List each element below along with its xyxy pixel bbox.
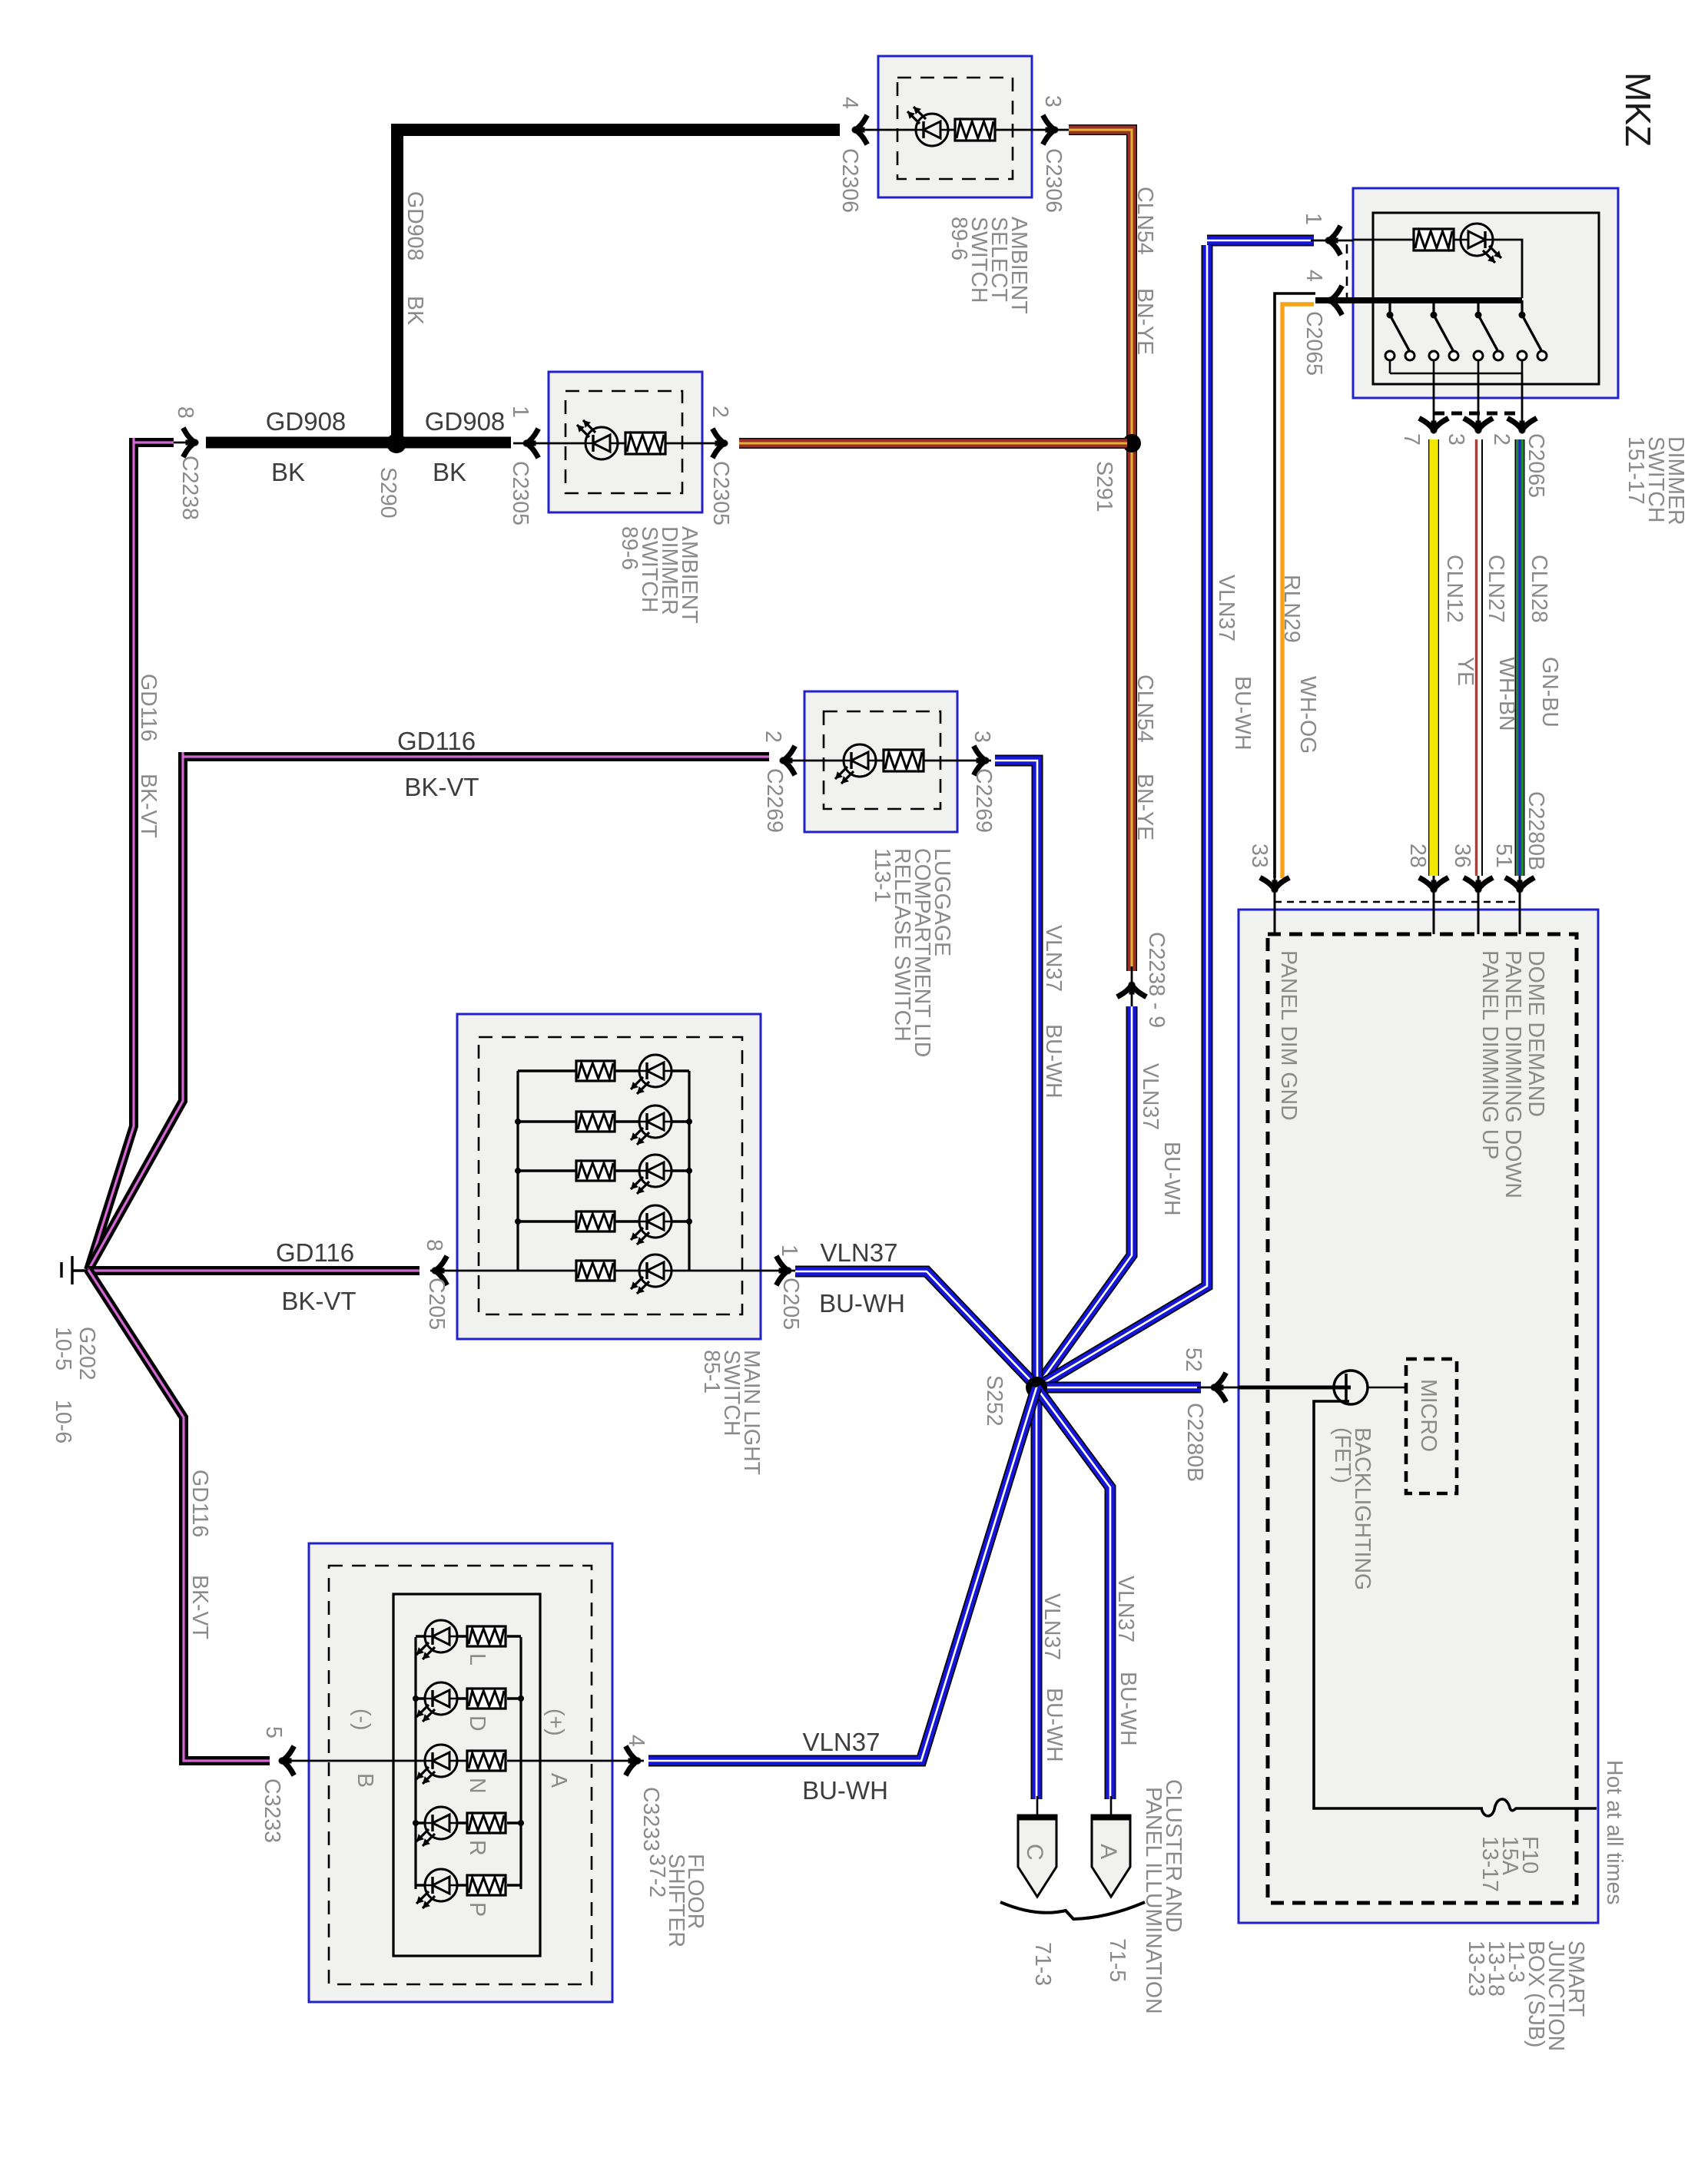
svg-text:BK: BK (403, 296, 427, 325)
svg-text:GD116: GD116 (397, 727, 476, 755)
svg-text:BK-VT: BK-VT (187, 1575, 212, 1639)
svg-text:4: 4 (624, 1735, 648, 1747)
svg-text:N: N (465, 1778, 489, 1794)
svg-text:71-3: 71-3 (1030, 1942, 1055, 1986)
svg-text:2: 2 (708, 406, 732, 418)
svg-text:Hot at all times: Hot at all times (1602, 1760, 1627, 1904)
svg-text:(+): (+) (543, 1709, 568, 1736)
svg-text:89-6: 89-6 (947, 217, 971, 260)
svg-text:RLN29: RLN29 (1279, 575, 1304, 643)
svg-text:GD908: GD908 (425, 407, 506, 436)
svg-text:A: A (546, 1773, 571, 1788)
svg-text:VLN37: VLN37 (1113, 1576, 1138, 1642)
svg-text:89-6: 89-6 (617, 526, 642, 570)
svg-text:GD116: GD116 (187, 1470, 212, 1537)
svg-text:151-17: 151-17 (1623, 436, 1648, 505)
svg-text:S290: S290 (376, 467, 400, 519)
svg-text:GD116: GD116 (276, 1238, 354, 1267)
svg-text:DOME DEMAND: DOME DEMAND (1524, 950, 1548, 1117)
svg-text:C2305: C2305 (708, 461, 733, 525)
svg-text:13-17: 13-17 (1478, 1836, 1502, 1892)
svg-text:BU-WH: BU-WH (1116, 1672, 1140, 1746)
svg-text:BK-VT: BK-VT (136, 774, 161, 838)
svg-text:BU-WH: BU-WH (1042, 1688, 1066, 1762)
svg-text:2: 2 (761, 731, 785, 743)
svg-text:13-23: 13-23 (1464, 1941, 1488, 1997)
svg-text:BU-WH: BU-WH (819, 1289, 905, 1318)
svg-text:8: 8 (173, 406, 197, 419)
svg-text:MICRO: MICRO (1416, 1379, 1441, 1452)
svg-text:S252: S252 (982, 1375, 1007, 1427)
svg-text:PANEL DIMMING DOWN: PANEL DIMMING DOWN (1501, 950, 1525, 1198)
svg-text:B: B (353, 1773, 377, 1788)
svg-text:10-6: 10-6 (51, 1400, 75, 1443)
svg-text:3: 3 (1444, 433, 1468, 446)
svg-text:CLN28: CLN28 (1527, 555, 1551, 623)
svg-text:C2269: C2269 (971, 768, 996, 833)
svg-text:CLN54: CLN54 (1133, 675, 1157, 743)
svg-text:G202: G202 (75, 1327, 99, 1380)
svg-text:GD908: GD908 (403, 191, 427, 260)
svg-text:37-2: 37-2 (645, 1854, 669, 1898)
svg-text:BK: BK (433, 458, 466, 486)
svg-text:71-5: 71-5 (1105, 1938, 1129, 1982)
svg-text:52: 52 (1181, 1347, 1206, 1372)
svg-text:CLN27: CLN27 (1484, 555, 1508, 623)
svg-text:PANEL DIMMING UP: PANEL DIMMING UP (1478, 950, 1502, 1159)
svg-text:3: 3 (970, 731, 994, 743)
svg-text:BN-YE: BN-YE (1133, 774, 1157, 840)
svg-text:VLN37: VLN37 (1138, 1063, 1162, 1130)
svg-text:BK-VT: BK-VT (281, 1287, 356, 1315)
svg-text:VLN37: VLN37 (1214, 575, 1239, 641)
svg-text:C2065: C2065 (1524, 433, 1548, 498)
svg-text:28: 28 (1405, 844, 1430, 868)
svg-text:C2238 - 9: C2238 - 9 (1144, 932, 1169, 1028)
svg-text:PANEL DIM GND: PANEL DIM GND (1276, 950, 1301, 1121)
svg-text:C205: C205 (424, 1278, 449, 1330)
svg-text:WH-BN: WH-BN (1494, 657, 1519, 731)
svg-text:BK-VT: BK-VT (404, 773, 479, 801)
svg-text:5: 5 (261, 1726, 286, 1738)
svg-text:VLN37: VLN37 (803, 1728, 881, 1756)
svg-text:C2269: C2269 (762, 768, 787, 833)
svg-text:7: 7 (1399, 433, 1424, 446)
svg-text:A: A (1096, 1844, 1121, 1859)
svg-text:YE: YE (1453, 657, 1478, 686)
svg-text:C2280B: C2280B (1182, 1403, 1207, 1482)
svg-text:C3233: C3233 (638, 1787, 663, 1851)
svg-text:BU-WH: BU-WH (1041, 1024, 1066, 1099)
svg-text:VLN37: VLN37 (821, 1238, 898, 1267)
svg-text:VLN37: VLN37 (1040, 1593, 1064, 1660)
svg-text:4: 4 (1302, 270, 1326, 282)
svg-text:C3233: C3233 (260, 1778, 284, 1843)
svg-text:L: L (465, 1653, 489, 1666)
svg-text:P: P (465, 1902, 489, 1917)
svg-text:BU-WH: BU-WH (1159, 1142, 1184, 1216)
svg-text:GD908: GD908 (266, 407, 347, 436)
svg-text:MKZ: MKZ (1618, 72, 1658, 147)
svg-text:8: 8 (422, 1239, 446, 1251)
svg-text:(-): (-) (350, 1709, 374, 1730)
svg-text:BU-WH: BU-WH (1230, 676, 1255, 751)
svg-text:36: 36 (1450, 844, 1474, 868)
svg-text:PANEL ILLUMINATION: PANEL ILLUMINATION (1141, 1787, 1166, 2014)
svg-text:4: 4 (837, 97, 862, 109)
svg-text:CLN54: CLN54 (1133, 187, 1157, 255)
svg-text:C2238: C2238 (177, 456, 202, 520)
svg-text:2: 2 (1489, 433, 1514, 446)
svg-text:S291: S291 (1092, 461, 1116, 512)
svg-text:WH-OG: WH-OG (1295, 676, 1320, 754)
svg-text:C2065: C2065 (1302, 311, 1326, 376)
svg-text:51: 51 (1491, 844, 1516, 868)
svg-text:GN-BU: GN-BU (1537, 657, 1562, 728)
svg-text:C2280B: C2280B (1524, 791, 1548, 870)
svg-text:C2306: C2306 (1041, 148, 1066, 213)
svg-text:C2305: C2305 (508, 461, 532, 525)
svg-text:C: C (1022, 1844, 1047, 1861)
svg-text:1: 1 (777, 1245, 801, 1257)
svg-text:CLN12: CLN12 (1442, 555, 1467, 623)
svg-text:85-1: 85-1 (699, 1350, 724, 1394)
svg-text:GD116: GD116 (136, 674, 161, 741)
svg-text:R: R (465, 1840, 489, 1856)
svg-text:D: D (465, 1715, 489, 1732)
svg-text:113-1: 113-1 (870, 848, 894, 903)
svg-text:VLN37: VLN37 (1041, 925, 1066, 992)
svg-text:1: 1 (1301, 213, 1325, 225)
svg-text:3: 3 (1040, 95, 1065, 108)
svg-text:BK: BK (271, 458, 305, 486)
svg-text:BN-YE: BN-YE (1133, 288, 1157, 355)
svg-text:33: 33 (1247, 844, 1272, 868)
svg-text:10-5: 10-5 (51, 1327, 75, 1371)
svg-text:(FET): (FET) (1330, 1427, 1355, 1483)
svg-text:C205: C205 (778, 1278, 803, 1330)
svg-text:BU-WH: BU-WH (802, 1776, 888, 1805)
svg-text:1: 1 (508, 406, 532, 418)
svg-text:C2306: C2306 (837, 148, 862, 213)
